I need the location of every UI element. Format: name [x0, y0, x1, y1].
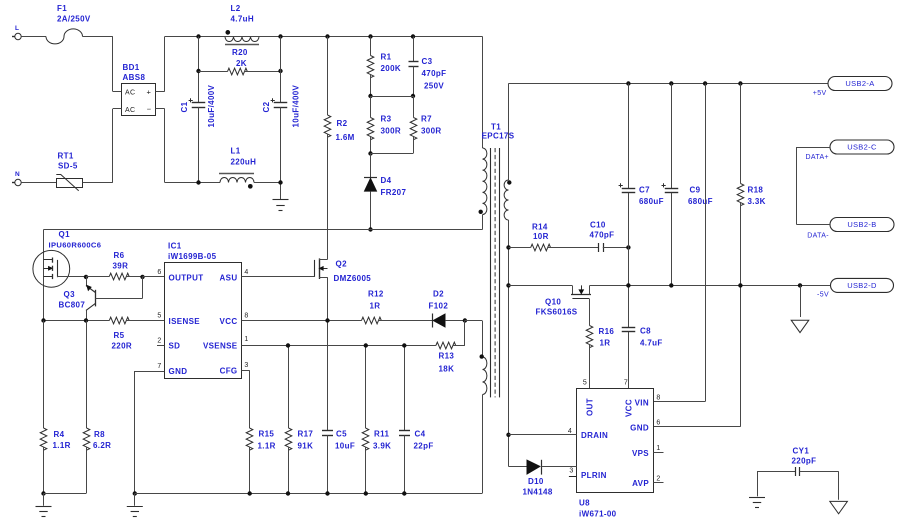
svg-text:2: 2: [656, 476, 660, 483]
svg-text:1N4148: 1N4148: [523, 488, 553, 497]
svg-text:C8: C8: [640, 327, 651, 336]
svg-text:ASU: ASU: [220, 274, 238, 283]
svg-text:Q3: Q3: [64, 290, 76, 299]
svg-text:6.2R: 6.2R: [93, 441, 111, 450]
svg-text:VIN: VIN: [635, 399, 649, 408]
svg-text:−: −: [147, 105, 152, 114]
svg-text:1: 1: [656, 445, 660, 452]
svg-text:-5V: -5V: [817, 292, 829, 299]
svg-text:1R: 1R: [370, 302, 381, 311]
svg-text:1R: 1R: [600, 339, 611, 348]
svg-text:VCC: VCC: [220, 317, 238, 326]
svg-text:R18: R18: [748, 186, 764, 195]
svg-text:DMZ6005: DMZ6005: [334, 274, 372, 283]
svg-text:D2: D2: [433, 290, 444, 299]
svg-text:C4: C4: [415, 430, 426, 439]
svg-text:22pF: 22pF: [414, 442, 434, 451]
svg-text:Q10: Q10: [545, 298, 561, 307]
svg-text:C3: C3: [422, 57, 433, 66]
svg-text:GND: GND: [630, 424, 649, 433]
svg-text:1.1R: 1.1R: [53, 441, 71, 450]
svg-text:2A/250V: 2A/250V: [57, 15, 91, 24]
svg-text:220uH: 220uH: [231, 158, 257, 167]
svg-text:2: 2: [157, 338, 161, 345]
svg-text:T1: T1: [491, 123, 501, 132]
svg-text:R20: R20: [232, 48, 248, 57]
svg-text:ABS8: ABS8: [123, 73, 146, 82]
svg-text:18K: 18K: [439, 365, 455, 374]
svg-text:U8: U8: [579, 499, 590, 508]
svg-text:AC: AC: [125, 90, 135, 97]
svg-text:5: 5: [583, 380, 587, 387]
svg-text:DRAIN: DRAIN: [581, 431, 608, 440]
svg-text:N: N: [15, 171, 20, 178]
svg-text:470pF: 470pF: [590, 231, 615, 240]
svg-text:IC1: IC1: [168, 242, 182, 251]
svg-text:+: +: [147, 88, 152, 97]
svg-text:39R: 39R: [113, 262, 129, 271]
svg-text:7: 7: [157, 363, 161, 370]
svg-text:4: 4: [244, 269, 248, 276]
svg-text:R3: R3: [381, 115, 392, 124]
svg-text:1.1R: 1.1R: [258, 442, 276, 451]
svg-text:SD: SD: [169, 342, 181, 351]
svg-text:+5V: +5V: [813, 90, 827, 97]
svg-text:220R: 220R: [112, 342, 133, 351]
svg-text:Q2: Q2: [336, 260, 348, 269]
svg-text:200K: 200K: [381, 64, 402, 73]
svg-text:iW1699B-05: iW1699B-05: [168, 252, 217, 261]
svg-text:C2: C2: [262, 101, 271, 112]
svg-text:D10: D10: [528, 477, 544, 486]
svg-text:CFG: CFG: [220, 367, 238, 376]
svg-text:R13: R13: [439, 352, 455, 361]
svg-text:R7: R7: [421, 115, 432, 124]
svg-text:R11: R11: [374, 430, 389, 439]
svg-text:C10: C10: [590, 221, 606, 230]
svg-text:4: 4: [568, 428, 572, 435]
svg-text:3: 3: [569, 468, 573, 475]
svg-text:10uF: 10uF: [335, 442, 355, 451]
svg-text:1.6M: 1.6M: [336, 133, 355, 142]
svg-text:GND: GND: [169, 367, 188, 376]
svg-text:8: 8: [656, 395, 660, 402]
svg-text:300R: 300R: [381, 127, 402, 136]
svg-text:AVP: AVP: [632, 479, 649, 488]
svg-text:2K: 2K: [236, 59, 247, 68]
svg-text:R1: R1: [381, 53, 392, 62]
svg-text:6: 6: [656, 420, 660, 427]
svg-text:Q1: Q1: [59, 230, 71, 239]
svg-text:VSENSE: VSENSE: [203, 342, 238, 351]
svg-text:DATA-: DATA-: [807, 233, 829, 240]
svg-text:USB2-D: USB2-D: [847, 281, 877, 290]
svg-text:BC807: BC807: [59, 301, 86, 310]
svg-text:OUT: OUT: [586, 398, 595, 416]
svg-text:7: 7: [624, 380, 628, 387]
svg-text:AC: AC: [125, 107, 135, 114]
svg-text:C7: C7: [639, 186, 650, 195]
svg-text:R4: R4: [54, 430, 65, 439]
svg-text:4.7uH: 4.7uH: [231, 15, 255, 24]
svg-text:RT1: RT1: [58, 152, 74, 161]
svg-text:300R: 300R: [421, 127, 442, 136]
svg-text:C1: C1: [180, 101, 189, 112]
svg-text:6: 6: [157, 269, 161, 276]
svg-text:FR207: FR207: [381, 188, 407, 197]
svg-text:USB2-B: USB2-B: [847, 220, 876, 229]
svg-text:C9: C9: [690, 186, 701, 195]
svg-text:CY1: CY1: [793, 447, 810, 456]
svg-text:10uF/400V: 10uF/400V: [207, 84, 216, 127]
svg-text:F102: F102: [429, 302, 449, 311]
svg-text:VPS: VPS: [632, 449, 649, 458]
svg-text:R12: R12: [368, 290, 384, 299]
svg-text:R5: R5: [114, 331, 125, 340]
svg-text:4.7uF: 4.7uF: [640, 339, 663, 348]
svg-text:R6: R6: [114, 251, 125, 260]
svg-text:L: L: [15, 25, 19, 32]
svg-text:PLRIN: PLRIN: [581, 471, 607, 480]
svg-text:ISENSE: ISENSE: [169, 317, 201, 326]
svg-text:3: 3: [244, 362, 248, 369]
svg-text:10R: 10R: [533, 232, 549, 241]
svg-text:1: 1: [244, 336, 248, 343]
svg-text:R14: R14: [532, 223, 548, 232]
svg-text:FKS6016S: FKS6016S: [536, 308, 578, 317]
svg-text:L1: L1: [231, 147, 241, 156]
svg-text:10uF/400V: 10uF/400V: [291, 84, 300, 127]
svg-text:USB2-A: USB2-A: [845, 79, 874, 88]
svg-text:3.3K: 3.3K: [748, 197, 766, 206]
svg-text:OUTPUT: OUTPUT: [169, 274, 204, 283]
svg-text:USB2-C: USB2-C: [847, 143, 877, 152]
svg-text:R8: R8: [94, 430, 105, 439]
svg-text:L2: L2: [231, 4, 241, 13]
svg-text:680uF: 680uF: [688, 197, 713, 206]
svg-text:250V: 250V: [424, 82, 444, 91]
svg-text:D4: D4: [381, 176, 392, 185]
svg-text:DATA+: DATA+: [806, 154, 829, 161]
svg-text:8: 8: [244, 313, 248, 320]
svg-text:R15: R15: [259, 430, 275, 439]
svg-text:3.9K: 3.9K: [373, 442, 391, 451]
svg-text:R17: R17: [298, 430, 314, 439]
svg-text:470pF: 470pF: [422, 69, 447, 78]
svg-text:VCC: VCC: [625, 399, 634, 417]
svg-text:SD-5: SD-5: [58, 162, 78, 171]
svg-text:iW671-00: iW671-00: [579, 510, 617, 519]
svg-text:F1: F1: [57, 4, 67, 13]
svg-text:R2: R2: [337, 119, 348, 128]
svg-text:BD1: BD1: [123, 63, 140, 72]
svg-text:EPC17S: EPC17S: [482, 132, 515, 141]
svg-text:IPU60R600C6: IPU60R600C6: [49, 241, 102, 250]
svg-text:C5: C5: [336, 430, 347, 439]
svg-text:680uF: 680uF: [639, 197, 664, 206]
svg-text:5: 5: [157, 313, 161, 320]
svg-text:91K: 91K: [298, 442, 314, 451]
svg-text:220pF: 220pF: [792, 457, 817, 466]
svg-text:R16: R16: [599, 327, 615, 336]
